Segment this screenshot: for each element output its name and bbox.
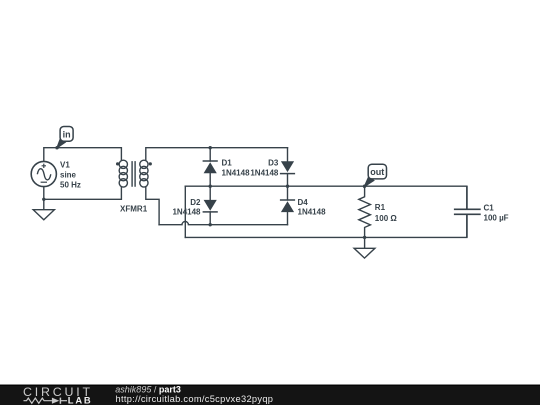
D3 label — [250, 159, 279, 178]
transformer XFMR1 — [116, 160, 152, 187]
svg-text:100 µF: 100 µF — [484, 214, 509, 223]
svg-text:XFMR1: XFMR1 — [120, 205, 148, 214]
svg-text:ashik895 / part3: ashik895 / part3 — [115, 384, 181, 394]
svg-text:C1: C1 — [484, 204, 495, 213]
logo mini schematic resistor — [24, 398, 52, 403]
wire R1 ground stub — [364, 237, 366, 248]
svg-text:D1: D1 — [222, 159, 233, 168]
wire D3-D4 branch vertical — [287, 148, 289, 225]
wire top rail secondary (XFMR1 secondary top to D3 corner) — [146, 148, 288, 161]
logo LAB text — [68, 395, 93, 405]
node D1-D2 junction dot — [209, 185, 212, 188]
wire V1 ground stub — [43, 199, 45, 209]
voltage source V1 — [31, 161, 56, 186]
node R1 bottom dot — [363, 236, 366, 239]
D4 label — [298, 198, 327, 217]
node D1 top dot — [209, 146, 212, 149]
svg-text:1N4148: 1N4148 — [172, 208, 201, 217]
capacitor C1 — [454, 186, 481, 237]
svg-text:R1: R1 — [375, 203, 386, 212]
footer author line — [115, 384, 181, 394]
svg-text:sine: sine — [60, 170, 77, 179]
wire bridge bottom rail with hop over vertical — [159, 222, 287, 225]
wire primary bottom (V1 bottom to XFMR1 primary bottom) — [44, 187, 122, 200]
footer url line — [116, 394, 274, 404]
svg-text:http://circuitlab.com/c5cpvxe3: http://circuitlab.com/c5cpvxe32pyqp — [116, 394, 274, 404]
flag in — [57, 127, 73, 148]
wire middle-to-bottom vertical — [184, 186, 186, 237]
node V1 bottom dot — [42, 198, 45, 201]
diode D2 — [203, 200, 218, 212]
svg-text:1N4148: 1N4148 — [250, 168, 279, 177]
V1 label — [60, 160, 81, 189]
svg-text:D2: D2 — [190, 198, 201, 207]
svg-text:D4: D4 — [298, 198, 309, 207]
svg-text:in: in — [63, 129, 71, 139]
resistor R1 — [359, 186, 371, 237]
svg-text:LAB: LAB — [68, 395, 93, 405]
svg-text:D3: D3 — [268, 159, 279, 168]
svg-text:out: out — [370, 167, 384, 177]
svg-text:1N4148: 1N4148 — [298, 208, 327, 217]
diode D4 — [280, 200, 295, 212]
flag out — [364, 164, 386, 186]
wire secondary bottom (XFMR1 secondary bottom down to bridge bottom rail) — [146, 187, 159, 225]
wire D1 branch vertical — [209, 148, 211, 225]
XFMR1 label — [120, 205, 148, 214]
node in dot — [55, 146, 58, 149]
wire top rail primary (V1 top to XFMR1 primary top) — [44, 148, 122, 162]
svg-text:1N4148: 1N4148 — [222, 168, 251, 177]
diode D3 — [280, 161, 295, 173]
node out dot — [363, 185, 366, 188]
C1 label — [484, 204, 509, 223]
ground under R1 — [354, 248, 375, 258]
node D3-D4 junction dot — [286, 185, 289, 188]
logo CIRCUIT text — [23, 385, 93, 399]
svg-text:V1: V1 — [60, 160, 70, 169]
ground under V1 — [33, 210, 54, 220]
svg-text:50 Hz: 50 Hz — [60, 180, 81, 189]
R1 label — [375, 203, 398, 223]
footer bar — [0, 385, 540, 405]
wire middle rail (bridge midpoints to out node to C1 top) — [185, 185, 467, 187]
wire bottom rail (to R1 bottom and C1 bottom) — [185, 236, 467, 238]
node D2 bottom dot — [209, 223, 212, 226]
logo mini schematic diode — [52, 398, 67, 404]
D2 label — [172, 198, 201, 217]
D1 label — [222, 159, 251, 178]
svg-text:100 Ω: 100 Ω — [375, 214, 398, 223]
diode D1 — [203, 161, 218, 173]
